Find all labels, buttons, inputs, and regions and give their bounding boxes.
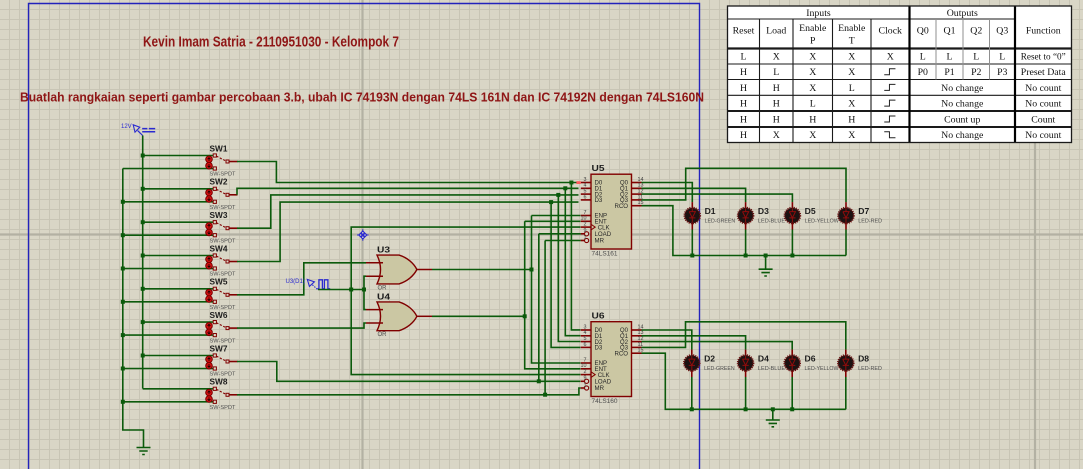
svg-text:LED-YELLOW: LED-YELLOW: [805, 219, 840, 225]
svg-text:Q3: Q3: [996, 26, 1008, 37]
junction bus D3: [744, 254, 748, 258]
led D2 LED-GREEN: [684, 350, 735, 377]
led D6 LED-YELLOW: [784, 350, 839, 377]
led D1 LED-GREEN: [685, 202, 736, 229]
svg-text:LED-YELLOW: LED-YELLOW: [805, 366, 840, 372]
svg-text:LED-BLUE: LED-BLUE: [758, 219, 785, 225]
switch SW1: [206, 143, 238, 177]
ground symbol: [766, 409, 780, 427]
svg-text:L: L: [920, 52, 926, 63]
svg-text:X: X: [848, 130, 855, 141]
wire Q2 to LED: [642, 342, 793, 350]
wire SW3 to U5 D2: [237, 195, 579, 228]
wire clock to OR inputs: [364, 276, 366, 309]
svg-text:D4: D4: [758, 354, 770, 363]
svg-text:X: X: [773, 130, 780, 141]
svg-text:L: L: [999, 52, 1005, 63]
svg-text:2: 2: [584, 222, 587, 228]
svg-text:U3(D1): U3(D1): [286, 279, 305, 285]
svg-text:D3: D3: [595, 345, 603, 352]
wire battery bus to SW7: [143, 355, 214, 357]
junction battery bus SW6: [141, 320, 145, 324]
wire LED D6 to bus: [791, 377, 793, 409]
svg-text:SW1: SW1: [210, 143, 228, 153]
junction battery bus SW2: [141, 187, 145, 191]
junction clock OR branch: [362, 288, 366, 292]
wire LED D5 to bus: [791, 230, 793, 256]
svg-text:LED-GREEN: LED-GREEN: [705, 219, 736, 225]
svg-text:1: 1: [584, 382, 587, 388]
svg-text:P2: P2: [971, 67, 981, 78]
svg-text:SW7: SW7: [210, 343, 228, 353]
svg-text:Count: Count: [1031, 114, 1055, 125]
wire SW1 to U5 D0: [237, 162, 577, 183]
wire SW6 to U4 input: [237, 323, 366, 328]
counter IC U6 74LS160: [581, 312, 644, 405]
power source 12V: [121, 124, 155, 136]
svg-text:SW5: SW5: [210, 277, 228, 287]
junction bus D5: [790, 254, 794, 258]
svg-text:X: X: [809, 52, 816, 63]
wire ground bus to SW7: [123, 368, 214, 370]
junction bus D2: [690, 407, 694, 411]
svg-text:H: H: [773, 83, 780, 94]
svg-text:No count: No count: [1025, 130, 1061, 141]
switch SW5: [206, 277, 238, 311]
svg-text:MR: MR: [595, 385, 605, 392]
wire battery bus to SW5: [143, 288, 214, 290]
svg-text:D5: D5: [805, 207, 817, 216]
svg-text:D1: D1: [705, 207, 717, 216]
junction LOAD net: [537, 379, 541, 383]
wire D3 vertical U5-U6: [551, 202, 580, 347]
junction bus D4: [744, 407, 748, 411]
svg-text:X: X: [848, 67, 855, 78]
svg-text:Q2: Q2: [970, 26, 982, 37]
title text line 2: [20, 91, 704, 105]
sheet axis horizontal line: [0, 233, 1083, 235]
svg-text:L: L: [741, 52, 747, 63]
svg-text:RCO: RCO: [614, 350, 628, 357]
junction ENT net: [523, 314, 527, 318]
svg-text:D6: D6: [805, 354, 817, 363]
svg-text:U4: U4: [377, 293, 391, 302]
svg-text:D8: D8: [858, 354, 870, 363]
wire battery feed: [142, 136, 144, 156]
wire D1 vertical U5-U6: [565, 188, 580, 335]
junction D1: [563, 186, 567, 190]
switch SW2: [206, 177, 238, 211]
svg-text:Inputs: Inputs: [806, 8, 831, 19]
wire Q1 to LED: [642, 336, 746, 350]
wire ground bus to SW1: [123, 168, 214, 170]
wire SW4 to U5 D3: [237, 202, 579, 261]
svg-text:X: X: [887, 52, 894, 63]
wire ground bus to SW3: [123, 234, 214, 236]
svg-text:2: 2: [584, 369, 587, 375]
junction ENP net: [530, 268, 534, 272]
svg-text:T: T: [849, 36, 855, 47]
svg-text:D3: D3: [595, 197, 603, 204]
wire LED D2 to bus: [691, 377, 693, 409]
sheet border: [29, 4, 700, 469]
wire LED D1 to bus: [691, 230, 693, 256]
svg-text:Count up: Count up: [944, 114, 980, 125]
wire LED D7 to bus: [845, 230, 847, 256]
wire D2 vertical U5-U6: [558, 195, 580, 342]
junction ground bus SW2: [121, 200, 125, 204]
svg-text:X: X: [773, 52, 780, 63]
led D4 LED-BLUE: [738, 350, 786, 377]
svg-text:No count: No count: [1025, 99, 1061, 110]
led D8 LED-RED: [838, 350, 882, 377]
wire LED D3 to bus: [745, 230, 747, 256]
wire battery bus to SW6: [143, 321, 214, 323]
svg-text:X: X: [809, 67, 816, 78]
svg-text:L: L: [947, 52, 953, 63]
svg-text:No change: No change: [941, 83, 984, 94]
junction ground bus SW8: [121, 400, 125, 404]
wire RCO to cathode bus: [642, 353, 846, 409]
svg-text:H: H: [740, 67, 747, 78]
wire LED D8 to bus: [845, 377, 847, 409]
svg-text:D3: D3: [758, 207, 770, 216]
svg-text:Preset Data: Preset Data: [1021, 67, 1067, 78]
svg-text:Load: Load: [766, 26, 786, 37]
svg-text:SW3: SW3: [210, 210, 228, 220]
junction bus D6: [790, 407, 794, 411]
sheet axis vertical line: [361, 0, 363, 469]
svg-text:74LS160: 74LS160: [592, 398, 619, 405]
svg-text:Outputs: Outputs: [947, 8, 978, 19]
svg-text:P0: P0: [918, 67, 928, 78]
junction battery bus SW7: [141, 354, 145, 358]
svg-text:SW-SPDT: SW-SPDT: [210, 405, 237, 411]
svg-text:U3: U3: [377, 246, 391, 255]
wire ground bus to SW4: [123, 268, 214, 270]
svg-text:X: X: [848, 99, 855, 110]
wire battery bus to SW8: [143, 388, 214, 390]
svg-text:No count: No count: [1025, 83, 1061, 94]
led D3 LED-BLUE: [738, 202, 786, 229]
svg-text:P: P: [810, 36, 816, 47]
wire battery bus to SW1: [143, 155, 214, 157]
junction D0: [569, 181, 573, 185]
svg-text:H: H: [740, 130, 747, 141]
wire ENT vertical U5-U6: [525, 221, 581, 368]
wire Q0 to LED: [642, 330, 692, 350]
svg-text:L: L: [773, 67, 779, 78]
wire SW5 to U3 input: [237, 263, 366, 295]
wire Q3 over-route to LED: [642, 322, 846, 350]
junction ground bus SW7: [121, 367, 125, 371]
svg-text:SW6: SW6: [210, 310, 228, 320]
wire clock output: [318, 289, 364, 291]
svg-text:D7: D7: [858, 207, 870, 216]
junction ground bus SW4: [121, 267, 125, 271]
svg-text:OR: OR: [378, 285, 388, 291]
ground symbol: [759, 256, 773, 277]
svg-text:LED-RED: LED-RED: [858, 366, 882, 372]
wire RCO to cathode bus: [642, 206, 847, 256]
svg-text:Enable: Enable: [799, 23, 827, 34]
junction ground bus SW6: [121, 333, 125, 337]
wire Q2 to LED: [642, 194, 793, 202]
svg-text:L: L: [849, 83, 855, 94]
svg-text:No change: No change: [941, 130, 984, 141]
junction ground bus SW5: [121, 300, 125, 304]
svg-text:Kevin Imam Satria - 2110951030: Kevin Imam Satria - 2110951030 - Kelompo…: [143, 34, 399, 51]
or-gate U3: [366, 246, 432, 292]
svg-text:9: 9: [584, 376, 587, 382]
svg-text:H: H: [740, 83, 747, 94]
svg-text:L: L: [973, 52, 979, 63]
svg-text:Q1: Q1: [944, 26, 956, 37]
svg-text:D2: D2: [704, 354, 716, 363]
wire battery bus to SW2: [143, 188, 214, 190]
counter IC U5 74LS161: [576, 164, 643, 257]
junction bus ground tap: [771, 407, 775, 411]
svg-text:6: 6: [584, 342, 587, 348]
wire battery bus to SW4: [143, 255, 214, 257]
svg-text:X: X: [848, 52, 855, 63]
junction bus ground tap: [764, 254, 768, 258]
switch SW8: [206, 377, 238, 411]
svg-text:H: H: [773, 99, 780, 110]
svg-text:OR: OR: [378, 332, 388, 338]
svg-text:H: H: [773, 114, 780, 125]
svg-text:Function: Function: [1026, 26, 1061, 37]
svg-text:6: 6: [584, 194, 587, 200]
svg-text:Q0: Q0: [917, 26, 929, 37]
wire LED D4 to bus: [745, 377, 747, 409]
led D5 LED-YELLOW: [785, 202, 840, 229]
wire ground bus to SW5: [123, 301, 214, 303]
junction battery bus SW5: [141, 287, 145, 291]
svg-text:P1: P1: [944, 67, 954, 78]
junction MR net: [543, 393, 547, 397]
switch SW6: [206, 310, 238, 344]
svg-text:H: H: [809, 114, 816, 125]
wire U3 output to ENP net: [432, 269, 532, 271]
svg-text:74LS161: 74LS161: [592, 250, 619, 257]
junction D3: [549, 200, 553, 204]
svg-text:H: H: [740, 99, 747, 110]
svg-text:SW2: SW2: [210, 177, 228, 187]
svg-text:Enable: Enable: [838, 23, 866, 34]
svg-text:1: 1: [584, 235, 587, 241]
junction battery bus SW1: [141, 154, 145, 158]
svg-text:LED-RED: LED-RED: [858, 219, 882, 225]
wire ground bus to SW2: [123, 201, 214, 203]
wire SW8 to U6 MR: [237, 388, 581, 395]
svg-text:H: H: [740, 114, 747, 125]
svg-text:L: L: [810, 99, 816, 110]
svg-text:Buatlah rangkaian seperti gamb: Buatlah rangkaian seperti gambar percoba…: [20, 91, 704, 105]
svg-text:LED-GREEN: LED-GREEN: [704, 366, 735, 372]
wire Q0 to LED: [642, 183, 693, 203]
wire SW2 to U5 D1: [237, 188, 579, 195]
svg-text:X: X: [809, 130, 816, 141]
svg-text:H: H: [848, 114, 855, 125]
ground symbol bottom-left: [137, 448, 151, 455]
origin marker: [357, 229, 369, 241]
junction ground bus SW3: [121, 233, 125, 237]
svg-text:9: 9: [584, 228, 587, 234]
wire Q3 over-route to LED: [642, 168, 847, 202]
svg-text:U5: U5: [592, 164, 606, 173]
svg-text:Reset to “0”: Reset to “0”: [1021, 52, 1066, 63]
svg-text:RCO: RCO: [614, 203, 628, 210]
wire ground bus to SW8: [123, 401, 214, 403]
svg-text:MR: MR: [595, 238, 605, 245]
svg-text:SW4: SW4: [210, 243, 228, 253]
junction bus D1: [690, 254, 694, 258]
wire ground bus: [123, 169, 144, 448]
svg-text:12V: 12V: [121, 124, 132, 130]
switch SW4: [206, 243, 238, 277]
wire ENP vertical U5-U6: [532, 216, 581, 364]
junction D2: [556, 193, 560, 197]
wire ground bus to SW6: [123, 334, 214, 336]
wire battery bus: [142, 156, 144, 389]
svg-text:SW8: SW8: [210, 377, 228, 387]
junction clock riser: [349, 288, 353, 292]
svg-text:Clock: Clock: [879, 26, 903, 37]
switch SW3: [206, 210, 238, 244]
or-gate U4: [366, 293, 432, 339]
svg-text:X: X: [809, 83, 816, 94]
switch SW7: [206, 343, 238, 377]
svg-text:LED-BLUE: LED-BLUE: [758, 366, 785, 372]
junction battery bus SW4: [141, 254, 145, 258]
truth table: [728, 6, 1072, 143]
led D7 LED-RED: [838, 202, 882, 229]
wire LOAD vertical U5-U6: [539, 234, 581, 381]
sheet axis vertical line right: [1034, 143, 1036, 469]
wire clock riser to U5 CLK and U6 CLK: [351, 227, 580, 375]
wire MR vertical U5-U6: [545, 241, 581, 395]
wire SW7 to U6 LOAD: [237, 362, 581, 382]
wire U4 output to ENT net: [432, 315, 525, 317]
junction battery bus SW3: [141, 220, 145, 224]
svg-text:P3: P3: [997, 67, 1007, 78]
wire Q1 to LED: [642, 188, 746, 202]
title text line 1: [143, 34, 399, 51]
wire battery bus to SW3: [143, 221, 214, 223]
svg-text:Reset: Reset: [733, 26, 755, 37]
svg-text:No change: No change: [941, 99, 984, 110]
wire D0 vertical U5-U6: [571, 183, 580, 330]
clock generator U3(D1): [286, 279, 331, 290]
svg-text:U6: U6: [592, 312, 606, 321]
